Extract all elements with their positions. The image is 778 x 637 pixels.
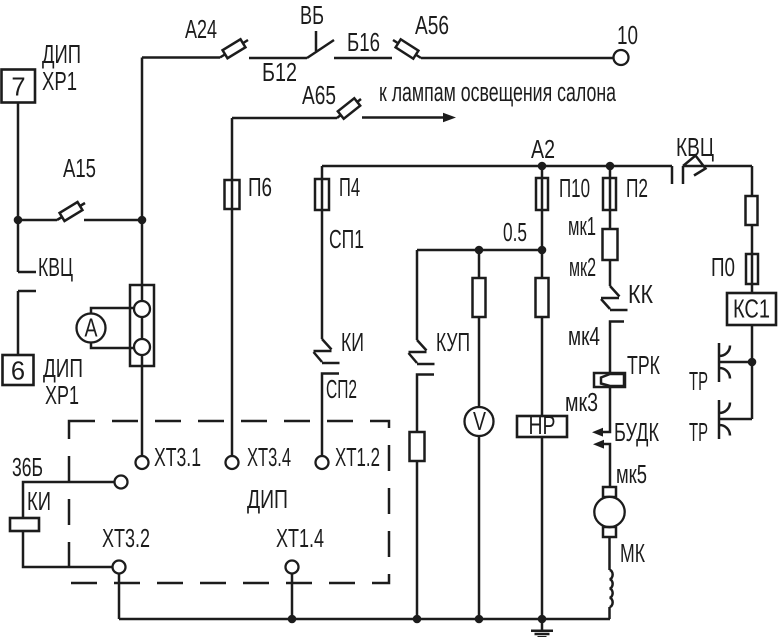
wire 36Б bbox=[23, 482, 114, 518]
wire КС1 column bbox=[751, 166, 754, 419]
resistor П10 column bbox=[536, 278, 549, 317]
wire ammeter taps bbox=[91, 308, 134, 348]
terminal ХТ3.1 bbox=[136, 456, 149, 469]
fuse П6 bbox=[225, 180, 240, 209]
svg-text:7: 7 bbox=[11, 74, 25, 102]
svg-text:0.5: 0.5 bbox=[503, 219, 527, 247]
shunt RS bbox=[130, 285, 154, 366]
svg-text:6: 6 bbox=[11, 358, 25, 386]
contact КИ bbox=[314, 339, 340, 363]
breaker А65 bbox=[337, 99, 361, 118]
wire ТРК to БУДК bbox=[603, 387, 610, 432]
main bus А2 bbox=[322, 165, 672, 168]
node П10 branch bbox=[538, 246, 547, 255]
node НР bus bbox=[538, 615, 547, 624]
wire СП2 fixed contact bbox=[322, 374, 339, 457]
svg-text:КК: КК bbox=[628, 281, 653, 309]
svg-text:КС1: КС1 bbox=[733, 296, 770, 324]
svg-text:36Б: 36Б bbox=[12, 454, 43, 482]
svg-text:КУП: КУП bbox=[436, 329, 470, 357]
svg-text:мк1: мк1 bbox=[568, 213, 596, 241]
svg-text:П6: П6 bbox=[248, 174, 272, 202]
svg-text:А24: А24 bbox=[185, 16, 217, 44]
contact КК bbox=[601, 286, 628, 310]
svg-text:БУДК: БУДК bbox=[614, 419, 659, 447]
relay НР bbox=[517, 416, 567, 437]
fuse П0 bbox=[746, 254, 758, 284]
fuse П10 bbox=[536, 178, 548, 210]
node V branch bbox=[475, 246, 484, 255]
wire КУП fixed contact bbox=[417, 375, 434, 620]
svg-text:ТР: ТР bbox=[689, 419, 708, 447]
svg-text:Б12: Б12 bbox=[262, 59, 297, 87]
breaker А56 bbox=[393, 40, 613, 58]
terminal ХТ1.2 bbox=[316, 456, 329, 469]
svg-text:А15: А15 bbox=[63, 155, 96, 183]
horn ТР upper bbox=[719, 343, 752, 382]
bottom bus bbox=[119, 618, 610, 621]
resistor КС1 column bbox=[746, 196, 758, 225]
svg-text:ДИП: ДИП bbox=[247, 486, 288, 514]
terminal 36Б on ДИП bbox=[115, 476, 128, 489]
svg-text:ТРК: ТРК bbox=[627, 352, 660, 380]
wire pin7 down bbox=[17, 102, 20, 220]
svg-text:П0: П0 bbox=[711, 254, 735, 282]
svg-text:А65: А65 bbox=[302, 82, 336, 110]
connector БУДК arrow upper bbox=[592, 428, 603, 437]
node КУП bus bbox=[413, 615, 422, 624]
svg-text:Б16: Б16 bbox=[347, 29, 380, 57]
svg-text:мк4: мк4 bbox=[568, 323, 600, 351]
wire БУДК to motor bbox=[604, 444, 610, 487]
unit ДИП dashed outline bbox=[69, 421, 389, 583]
ground bbox=[531, 619, 553, 637]
svg-text:КВЦ: КВЦ bbox=[38, 254, 73, 282]
wire ХТ3.2 to bus bbox=[118, 574, 121, 620]
svg-text:КИ: КИ bbox=[27, 488, 51, 516]
terminal ХТ3.4 bbox=[226, 456, 239, 469]
connector БУДК arrow lower bbox=[593, 440, 604, 449]
svg-text:МК: МК bbox=[620, 540, 645, 568]
svg-text:ХТ1.4: ХТ1.4 bbox=[276, 525, 324, 553]
relay КИ coil bbox=[10, 518, 39, 531]
node П2 branch bbox=[606, 162, 615, 171]
svg-text:10: 10 bbox=[617, 22, 638, 50]
node А2 bbox=[538, 162, 547, 171]
contactor contact КВЦ (left branch) bbox=[18, 220, 36, 355]
svg-text:А2: А2 bbox=[531, 136, 555, 164]
wire КУП column bbox=[416, 250, 419, 340]
svg-text:мк3: мк3 bbox=[565, 389, 598, 417]
wire А65 feed bbox=[232, 117, 337, 120]
svg-text:П4: П4 bbox=[339, 174, 360, 202]
svg-text:ВБ: ВБ bbox=[300, 2, 324, 30]
horn ТР lower bbox=[719, 400, 752, 439]
terminal ХТ3.2 bbox=[113, 561, 126, 574]
resistor V column bbox=[473, 278, 486, 317]
fuse П4 bbox=[315, 179, 329, 210]
resistor КУП column bbox=[410, 432, 425, 461]
node V bus bbox=[475, 615, 484, 624]
svg-text:ДИП: ДИП bbox=[43, 355, 83, 383]
svg-text:ХР1: ХР1 bbox=[45, 382, 79, 410]
svg-text:НР: НР bbox=[529, 412, 556, 440]
wire А24 riser bbox=[141, 58, 144, 221]
fuse П2 bbox=[603, 178, 616, 210]
node junction right bbox=[138, 216, 147, 225]
svg-text:ХР1: ХР1 bbox=[42, 68, 77, 96]
svg-text:к лампам освещения салона: к лампам освещения салона bbox=[379, 79, 617, 107]
node ТР junction bbox=[748, 358, 757, 367]
svg-text:ХТ3.2: ХТ3.2 bbox=[102, 525, 150, 553]
svg-text:мк5: мк5 bbox=[616, 461, 647, 489]
contact КУП bbox=[409, 340, 435, 364]
svg-text:П2: П2 bbox=[626, 175, 648, 203]
motor МК armature bbox=[603, 487, 616, 497]
wire motor to coil bbox=[608, 537, 611, 570]
wire ХТ1.4 to bus bbox=[291, 574, 294, 620]
relay КС1 bbox=[727, 293, 776, 325]
svg-text:КИ: КИ bbox=[341, 329, 364, 357]
wire coil to bus bbox=[608, 607, 611, 619]
switch ВБ bbox=[307, 31, 334, 58]
thermal element ТРК bbox=[594, 373, 625, 387]
inductor МК field coil bbox=[610, 570, 613, 607]
node junction left bbox=[14, 216, 23, 225]
wire П6 column bbox=[231, 118, 234, 456]
connector ДИП ХР1 pin 6 bbox=[3, 355, 34, 385]
bus 0.5 bbox=[417, 249, 542, 252]
svg-text:ХТ3.4: ХТ3.4 bbox=[247, 444, 291, 472]
voltmeter V bbox=[465, 407, 494, 436]
wire shunt column bbox=[141, 220, 144, 456]
svg-text:ДИП: ДИП bbox=[42, 41, 81, 69]
wire КК fixed contact bbox=[610, 322, 624, 374]
wire П10 column bbox=[541, 166, 544, 619]
svg-text:мк2: мк2 bbox=[569, 254, 596, 282]
contactor contact КВЦ (top right) bbox=[672, 156, 752, 185]
terminal 10 bbox=[614, 50, 629, 65]
svg-text:V: V bbox=[473, 408, 486, 436]
svg-text:ХТ3.1: ХТ3.1 bbox=[154, 444, 201, 472]
wire voltmeter column bbox=[478, 250, 481, 619]
svg-text:ТР: ТР bbox=[689, 368, 708, 396]
svg-text:ХТ1.2: ХТ1.2 bbox=[335, 444, 380, 472]
wire П4 column bbox=[321, 166, 324, 339]
wire КИ to ХТ3.2 bbox=[23, 531, 112, 567]
svg-text:КВЦ: КВЦ bbox=[676, 134, 714, 162]
arrow to salon lamps bbox=[362, 116, 443, 119]
connector ДИП ХР1 pin 7 bbox=[2, 70, 36, 103]
svg-text:А56: А56 bbox=[415, 12, 449, 40]
terminal ХТ1.4 bbox=[286, 561, 299, 574]
svg-text:П10: П10 bbox=[559, 175, 590, 203]
node ХТ1.4 bus bbox=[288, 615, 297, 624]
svg-text:СП1: СП1 bbox=[329, 226, 364, 254]
breaker А15 bbox=[18, 203, 142, 220]
wire П2 column upper bbox=[609, 166, 612, 286]
ammeter А bbox=[77, 314, 106, 343]
svg-text:СП2: СП2 bbox=[326, 376, 357, 404]
svg-text:А: А bbox=[85, 315, 98, 343]
resistor мк1-мк2 bbox=[603, 229, 618, 260]
wire Б16 contact bbox=[334, 57, 392, 60]
breaker А24 bbox=[142, 40, 307, 58]
